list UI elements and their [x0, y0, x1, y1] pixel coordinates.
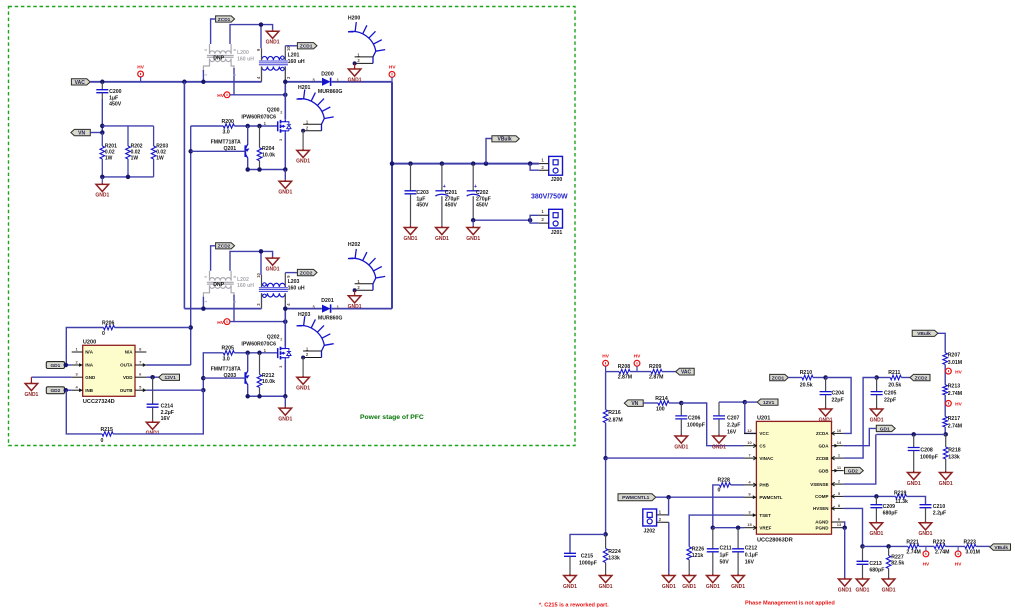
svg-text:ZCD1: ZCD1 — [300, 44, 313, 50]
svg-text:OUTA: OUTA — [120, 363, 133, 368]
resistor R221 2.74M — [908, 544, 919, 549]
svg-text:14: 14 — [837, 440, 842, 445]
resistor R222 2.74M — [934, 544, 945, 549]
svg-text:6: 6 — [204, 276, 208, 278]
svg-text:6: 6 — [204, 49, 208, 51]
wire boost output rail (vertical) — [391, 82, 393, 309]
svg-text:16: 16 — [837, 428, 842, 433]
power marker HV after R222 — [955, 551, 961, 557]
ground GND1 of H203 — [302, 358, 304, 376]
resistor R227 82.5k — [888, 546, 890, 555]
port GD2 at INB — [46, 387, 64, 394]
capacitor C200 1uF 450V — [101, 82, 103, 90]
svg-text:1µF: 1µF — [416, 196, 425, 202]
wire drain riser — [284, 82, 286, 120]
svg-text:HV: HV — [217, 93, 224, 99]
svg-text:J200: J200 — [551, 177, 563, 183]
svg-text:VINAC: VINAC — [759, 456, 774, 461]
svg-text:GND1: GND1 — [563, 584, 577, 590]
svg-text:2.2µF: 2.2µF — [727, 422, 740, 428]
port VBulk at HVSEN divider — [990, 544, 1011, 550]
svg-text:PWMCNTL1: PWMCNTL1 — [622, 495, 650, 501]
wire rail feed to channel B — [183, 82, 185, 309]
svg-text:2.87M: 2.87M — [649, 375, 663, 381]
transistor Q201 FMMT718TA — [247, 126, 249, 144]
svg-text:DNP: DNP — [213, 282, 224, 288]
svg-text:C214: C214 — [161, 404, 174, 410]
svg-text:INA: INA — [85, 363, 94, 368]
svg-text:R223: R223 — [964, 539, 977, 545]
controller U201 UCC28063DR — [756, 421, 831, 534]
svg-text:C213: C213 — [869, 561, 882, 567]
svg-text:R219: R219 — [894, 490, 907, 496]
transistor Q200 IPW60R070C6 (MOSFET) — [277, 121, 279, 131]
port VBulk output — [486, 139, 492, 164]
svg-text:3.01M: 3.01M — [948, 360, 962, 366]
power marker HV between R208 R209 — [634, 360, 640, 366]
svg-text:680pF: 680pF — [883, 511, 898, 517]
svg-text:VBulk: VBulk — [917, 331, 931, 337]
wire transformer top interconnect to GND1 — [230, 25, 273, 44]
svg-text:GND1: GND1 — [674, 444, 688, 450]
svg-text:160 uH: 160 uH — [237, 56, 254, 62]
svg-text:133k: 133k — [948, 454, 960, 460]
resistor R205 3.0 (gate) — [223, 351, 234, 356]
svg-text:VDD: VDD — [123, 375, 133, 380]
svg-text:R213: R213 — [948, 384, 961, 390]
capacitor C207 2.2uF 16V — [718, 402, 720, 416]
svg-text:82.5k: 82.5k — [891, 561, 904, 567]
svg-text:2.2µF: 2.2µF — [933, 511, 946, 517]
ground GND1 of C214 — [146, 421, 159, 430]
wire VREF — [713, 527, 744, 529]
resistor R216 2.87M — [605, 372, 607, 410]
ground GND1 of C215 — [564, 574, 577, 583]
transformer L202 (DNP, not populated) — [203, 271, 234, 299]
ground GND1 of C211 — [707, 574, 720, 583]
svg-text:D201: D201 — [321, 298, 334, 304]
port ZCD2 at controller — [910, 374, 930, 380]
resistor R210 20.5k — [788, 377, 802, 379]
svg-text:R206: R206 — [102, 320, 115, 326]
ground GND1 of C204 — [819, 408, 832, 417]
ground GND1 of C209 — [870, 521, 883, 530]
capacitor C201 270uF 450V (polarized) — [441, 164, 443, 191]
port ZCD2 (transformer aux) — [216, 243, 235, 249]
wire J201 pins to return — [530, 215, 539, 223]
heatsink H202 — [348, 249, 385, 290]
port VBulk at divider top — [912, 330, 938, 336]
svg-text:380V/750W: 380V/750W — [531, 194, 568, 201]
svg-text:ZCD2: ZCD2 — [300, 270, 313, 276]
port ZCD1 at controller — [770, 374, 789, 380]
svg-text:HV: HV — [955, 562, 962, 568]
resistor R207 3.01M — [943, 353, 948, 365]
svg-text:GND1: GND1 — [296, 159, 310, 165]
svg-text:160 uH: 160 uH — [288, 59, 305, 65]
wire VN to shunt node — [90, 132, 102, 134]
connector J200 — [549, 156, 563, 175]
ground GND1 of C213 — [856, 578, 869, 587]
wire OUTA gate feed riser — [190, 126, 192, 365]
ground GND1 at MOSFET source — [284, 170, 286, 180]
wire from ZCD1 to DNP transformer — [211, 19, 216, 44]
svg-text:GND: GND — [85, 375, 96, 380]
svg-text:R211: R211 — [888, 370, 900, 376]
resistor R204 10.0k — [259, 126, 261, 148]
wire J202 pin1 to PWMCNTL — [667, 497, 669, 515]
wire 12V1 feed and C207 — [719, 401, 745, 403]
inductor L203 160 uH — [259, 283, 288, 297]
svg-text:680pF: 680pF — [869, 568, 884, 574]
svg-text:450V: 450V — [416, 203, 429, 209]
svg-text:0: 0 — [101, 438, 104, 444]
wire source ground rail — [248, 169, 286, 171]
svg-text:C210: C210 — [933, 504, 946, 510]
svg-text:L200: L200 — [237, 50, 249, 56]
svg-text:GND1: GND1 — [95, 193, 109, 199]
wire OUTA to riser — [146, 364, 190, 366]
port GD1 at INA — [46, 362, 64, 369]
svg-text:GND1: GND1 — [856, 587, 870, 593]
svg-text:15: 15 — [747, 522, 752, 527]
svg-text:ZCDB: ZCDB — [816, 456, 829, 461]
svg-text:DNP: DNP — [213, 55, 224, 61]
svg-text:GND1: GND1 — [435, 236, 449, 242]
svg-text:12: 12 — [747, 428, 752, 433]
ground GND1 of C203 — [404, 226, 417, 235]
wire R216 to VINAC node — [605, 423, 607, 458]
wire VSENSE node row — [876, 433, 945, 435]
svg-text:10.0k: 10.0k — [262, 379, 275, 385]
wire transformer pin3 to diode — [285, 308, 322, 310]
svg-text:R214: R214 — [655, 396, 668, 402]
svg-text:GND1: GND1 — [919, 531, 933, 537]
capacitor C202 270uF 450V (polarized) — [472, 164, 474, 191]
ground GND1 of H202 — [354, 290, 356, 294]
svg-text:HVSEN: HVSEN — [813, 506, 829, 511]
svg-text:121k: 121k — [692, 553, 704, 559]
svg-text:GND1: GND1 — [838, 587, 852, 593]
svg-text:GND1: GND1 — [939, 481, 953, 487]
svg-text:16V: 16V — [745, 559, 755, 565]
wire VSENSE riser — [844, 434, 876, 484]
wire from ZCD2 to DNP transformer — [211, 246, 216, 271]
wire OUTB to riser — [146, 389, 203, 391]
connector J201 — [549, 209, 563, 228]
svg-text:R209: R209 — [649, 364, 662, 370]
svg-text:450V: 450V — [109, 102, 122, 108]
heatsink H200 — [348, 22, 385, 63]
svg-text:1W: 1W — [156, 155, 164, 161]
svg-text:2.2µF: 2.2µF — [161, 410, 174, 416]
svg-text:R226: R226 — [692, 546, 705, 552]
svg-text:HV: HV — [602, 353, 609, 359]
capacitor C214 2.2uF 16V — [152, 377, 154, 404]
svg-text:PWMCNTL: PWMCNTL — [759, 495, 782, 500]
svg-text:450V: 450V — [445, 203, 458, 209]
svg-text:22pF: 22pF — [832, 398, 844, 404]
diode D200 MUR860G — [322, 78, 331, 86]
capacitor C205 22pF — [876, 378, 878, 392]
svg-text:VAC: VAC — [681, 370, 692, 376]
svg-text:270µF: 270µF — [476, 196, 491, 202]
svg-text:3.01M: 3.01M — [966, 550, 980, 556]
svg-text:PHB: PHB — [759, 483, 769, 488]
svg-text:J201: J201 — [551, 230, 563, 236]
svg-text:R200: R200 — [222, 119, 235, 125]
svg-text:C200: C200 — [109, 89, 122, 95]
wire HV to MOSFET drain node — [230, 321, 285, 323]
svg-text:H202: H202 — [348, 242, 361, 248]
power marker HV at boost node — [224, 319, 230, 325]
ground GND1 of AGND/PGND — [844, 528, 846, 578]
wire VCC feed — [745, 402, 757, 433]
ground GND1 of R224 — [599, 574, 612, 583]
svg-text:R205: R205 — [222, 346, 235, 352]
wire OUTB gate feed riser — [203, 353, 223, 390]
wire GDA to GD1 — [844, 428, 877, 445]
svg-text:2.87M: 2.87M — [608, 418, 622, 424]
svg-text:U201: U201 — [757, 416, 770, 422]
wire drain riser — [284, 309, 286, 347]
svg-text:GND1: GND1 — [599, 584, 613, 590]
svg-text:100: 100 — [656, 407, 665, 413]
port ZCD2 at L203 pin — [285, 272, 297, 274]
ground GND1 of R218 — [939, 471, 952, 480]
wire HVSEN to divider — [844, 508, 863, 546]
wire C202 to J201 return — [473, 219, 530, 221]
svg-text:HV: HV — [923, 562, 930, 568]
ground GND1 of C207 — [713, 435, 726, 444]
svg-text:R208: R208 — [618, 364, 631, 370]
resistor R215 0 — [66, 390, 102, 434]
svg-text:HV: HV — [634, 353, 641, 359]
svg-text:2.74M: 2.74M — [906, 550, 920, 556]
ground GND1 of C212 — [732, 574, 745, 583]
resistor R228 0 — [720, 483, 731, 488]
ground GND1 of C202 — [472, 220, 474, 226]
svg-text:GDB: GDB — [819, 468, 830, 473]
svg-text:3.0: 3.0 — [223, 356, 230, 362]
resistor R213 2.74M — [943, 385, 948, 395]
wire R211 to ZCDB — [844, 378, 877, 459]
port VN at controller — [624, 400, 643, 407]
capacitor C203 1uF 450V — [410, 164, 412, 191]
wire shunt bottom interconnect — [101, 159, 103, 177]
resistor R223 3.01M — [965, 544, 976, 549]
port 12V1 at U200 — [159, 374, 180, 380]
svg-text:UCC27324D: UCC27324D — [83, 399, 115, 405]
svg-text:R207: R207 — [948, 352, 961, 358]
svg-text:R224: R224 — [608, 549, 621, 555]
wire source to ground rail — [284, 133, 286, 170]
svg-text:GND1: GND1 — [348, 77, 362, 83]
power marker HV at R208 — [603, 360, 609, 366]
svg-text:10: 10 — [747, 440, 752, 445]
wire GD2 to INB — [65, 389, 72, 391]
svg-text:1000pF: 1000pF — [579, 561, 597, 567]
svg-text:0.1µF: 0.1µF — [745, 552, 758, 558]
svg-text:C208: C208 — [920, 447, 933, 453]
svg-text:16V: 16V — [161, 416, 171, 422]
svg-text:3: 3 — [233, 301, 237, 303]
svg-text:1W: 1W — [131, 155, 139, 161]
svg-text:GND1: GND1 — [24, 392, 38, 398]
svg-text:C204: C204 — [832, 390, 845, 396]
svg-text:IPW60R070C6: IPW60R070C6 — [241, 341, 276, 347]
power marker HV after R221 — [923, 551, 929, 557]
port ZCD1 (transformer aux) — [216, 16, 235, 22]
svg-text:GD1: GD1 — [50, 363, 60, 369]
heatsink H201 — [297, 89, 334, 130]
svg-text:GDA: GDA — [819, 443, 830, 448]
wire HVSEN divider row — [863, 545, 908, 547]
svg-text:16V: 16V — [727, 430, 737, 436]
wire R214 node to CS pin — [681, 403, 744, 446]
svg-text:C215: C215 — [581, 554, 594, 560]
wire shunt top interconnect — [102, 125, 153, 127]
ground GND1 of C208 — [907, 471, 920, 480]
svg-text:CS: CS — [759, 443, 765, 448]
svg-text:PGND: PGND — [815, 525, 829, 530]
svg-text:1000pF: 1000pF — [687, 422, 705, 428]
wire R219 to C210 — [907, 496, 926, 504]
svg-text:R215: R215 — [101, 427, 114, 433]
svg-text:1µF: 1µF — [720, 552, 729, 558]
transformer L200 (DNP, not populated) — [203, 44, 234, 72]
resistor R200 3.0 (gate) — [223, 124, 234, 129]
wire source ground rail — [248, 395, 286, 397]
svg-text:10: 10 — [256, 272, 261, 277]
power marker HV at output corner — [389, 72, 395, 78]
ground GND1 of C205 — [870, 408, 883, 417]
svg-text:R216: R216 — [608, 410, 621, 416]
svg-text:VN: VN — [631, 401, 638, 407]
svg-text:MUR860G: MUR860G — [318, 316, 343, 322]
svg-text:L201: L201 — [288, 52, 300, 58]
svg-text:N/A: N/A — [125, 350, 134, 355]
resistor R212 10.0k — [259, 353, 261, 375]
capacitor C208 1000pF — [913, 434, 915, 447]
ground GND1 of H200 — [354, 63, 356, 67]
svg-text:OUTB: OUTB — [120, 388, 133, 393]
wire gate drive — [234, 125, 277, 127]
svg-text:3: 3 — [279, 139, 283, 141]
svg-text:C212: C212 — [745, 546, 758, 552]
wire PWMCNTL — [656, 496, 744, 498]
capacitor C209 680pF — [875, 496, 877, 504]
wire VINAC — [606, 457, 744, 459]
svg-text:N/A: N/A — [85, 350, 94, 355]
svg-text:GND1: GND1 — [706, 584, 720, 590]
capacitor C213 680pF — [862, 546, 864, 561]
svg-text:U200: U200 — [83, 339, 96, 345]
svg-text:HV: HV — [955, 402, 962, 408]
wire DNP transformer pins to rail / HV — [202, 70, 204, 82]
svg-text:2.74M: 2.74M — [948, 391, 962, 397]
svg-text:GD1: GD1 — [880, 426, 890, 432]
svg-text:3: 3 — [233, 74, 237, 76]
ground GND1 of H201 — [302, 131, 304, 149]
svg-text:2: 2 — [280, 111, 282, 115]
svg-text:3.0: 3.0 — [223, 130, 230, 136]
wire node down to R224 — [605, 458, 607, 534]
svg-text:L203: L203 — [288, 279, 300, 285]
capacitor C211 1uF 50V — [712, 528, 714, 549]
transistor Q202 IPW60R070C6 (MOSFET) — [277, 348, 279, 358]
svg-text:ZCD1: ZCD1 — [772, 375, 785, 381]
wire gate drive — [234, 352, 277, 354]
svg-text:GND1: GND1 — [869, 531, 883, 537]
resistor R211 20.5k — [877, 377, 891, 379]
svg-text:R210: R210 — [800, 370, 813, 376]
wire HV-R208-R209 to VAC — [605, 366, 607, 371]
svg-text:H201: H201 — [298, 85, 311, 91]
svg-text:C203: C203 — [416, 190, 429, 196]
resistor R203 0.02 1W — [153, 126, 155, 146]
svg-text:H203: H203 — [298, 312, 311, 318]
svg-text:GND1: GND1 — [662, 584, 676, 590]
capacitor C206 1000pF — [680, 403, 682, 416]
ground GND1 at MOSFET source — [284, 396, 286, 406]
svg-text:1µF: 1µF — [109, 95, 118, 101]
svg-text:VSENSE: VSENSE — [810, 482, 828, 487]
svg-text:2: 2 — [280, 337, 282, 341]
svg-text:20.5k: 20.5k — [888, 382, 901, 388]
wire R228 to VREF node — [713, 485, 720, 528]
svg-text:12V1: 12V1 — [165, 375, 177, 381]
wire L203 pin stubs — [261, 275, 263, 287]
svg-text:R204: R204 — [262, 146, 275, 152]
wire R210 node to ZCDA — [826, 378, 852, 434]
svg-text:ZCD1: ZCD1 — [218, 17, 231, 23]
capacitor C215 1000pF — [570, 534, 606, 553]
svg-text:L202: L202 — [237, 277, 249, 283]
svg-text:GND1: GND1 — [278, 190, 292, 196]
ground GND1 of C210 — [919, 521, 932, 530]
port VAC input — [71, 79, 90, 85]
resistor R206 0 — [66, 328, 103, 366]
svg-text:FMMT718TA: FMMT718TA — [211, 140, 241, 146]
svg-text:C206: C206 — [688, 415, 701, 421]
wire GD1 to INA — [65, 364, 72, 366]
svg-text:22pF: 22pF — [884, 398, 896, 404]
resistor R224 133k — [605, 534, 607, 548]
svg-text:D200: D200 — [321, 71, 334, 77]
wire HV to MOSFET drain node — [230, 94, 285, 96]
wire DNP transformer pins to rail / HV — [202, 297, 204, 309]
wire L201 pin stubs — [261, 48, 263, 60]
heatsink H203 — [297, 316, 334, 357]
svg-text:ZCD2: ZCD2 — [915, 375, 928, 381]
svg-text:GD2: GD2 — [50, 388, 60, 394]
svg-text:12V1: 12V1 — [763, 400, 775, 406]
svg-text:VREF: VREF — [759, 525, 771, 530]
svg-text:GND1: GND1 — [404, 236, 418, 242]
resistor R214 100 — [643, 402, 658, 404]
wire input rail — [184, 308, 261, 310]
ground GND1 at transformer top — [266, 30, 279, 39]
svg-text:MUR860G: MUR860G — [318, 89, 343, 95]
svg-text:Power stage of PFC: Power stage of PFC — [360, 414, 424, 421]
svg-text:HV: HV — [389, 64, 396, 70]
wire AGND PGND join — [844, 522, 845, 528]
svg-text:11.3k: 11.3k — [895, 499, 908, 505]
ground GND1 of C201 — [436, 226, 449, 235]
ground GND1 at U200 GND pin — [31, 376, 71, 378]
svg-text:0: 0 — [102, 331, 105, 337]
